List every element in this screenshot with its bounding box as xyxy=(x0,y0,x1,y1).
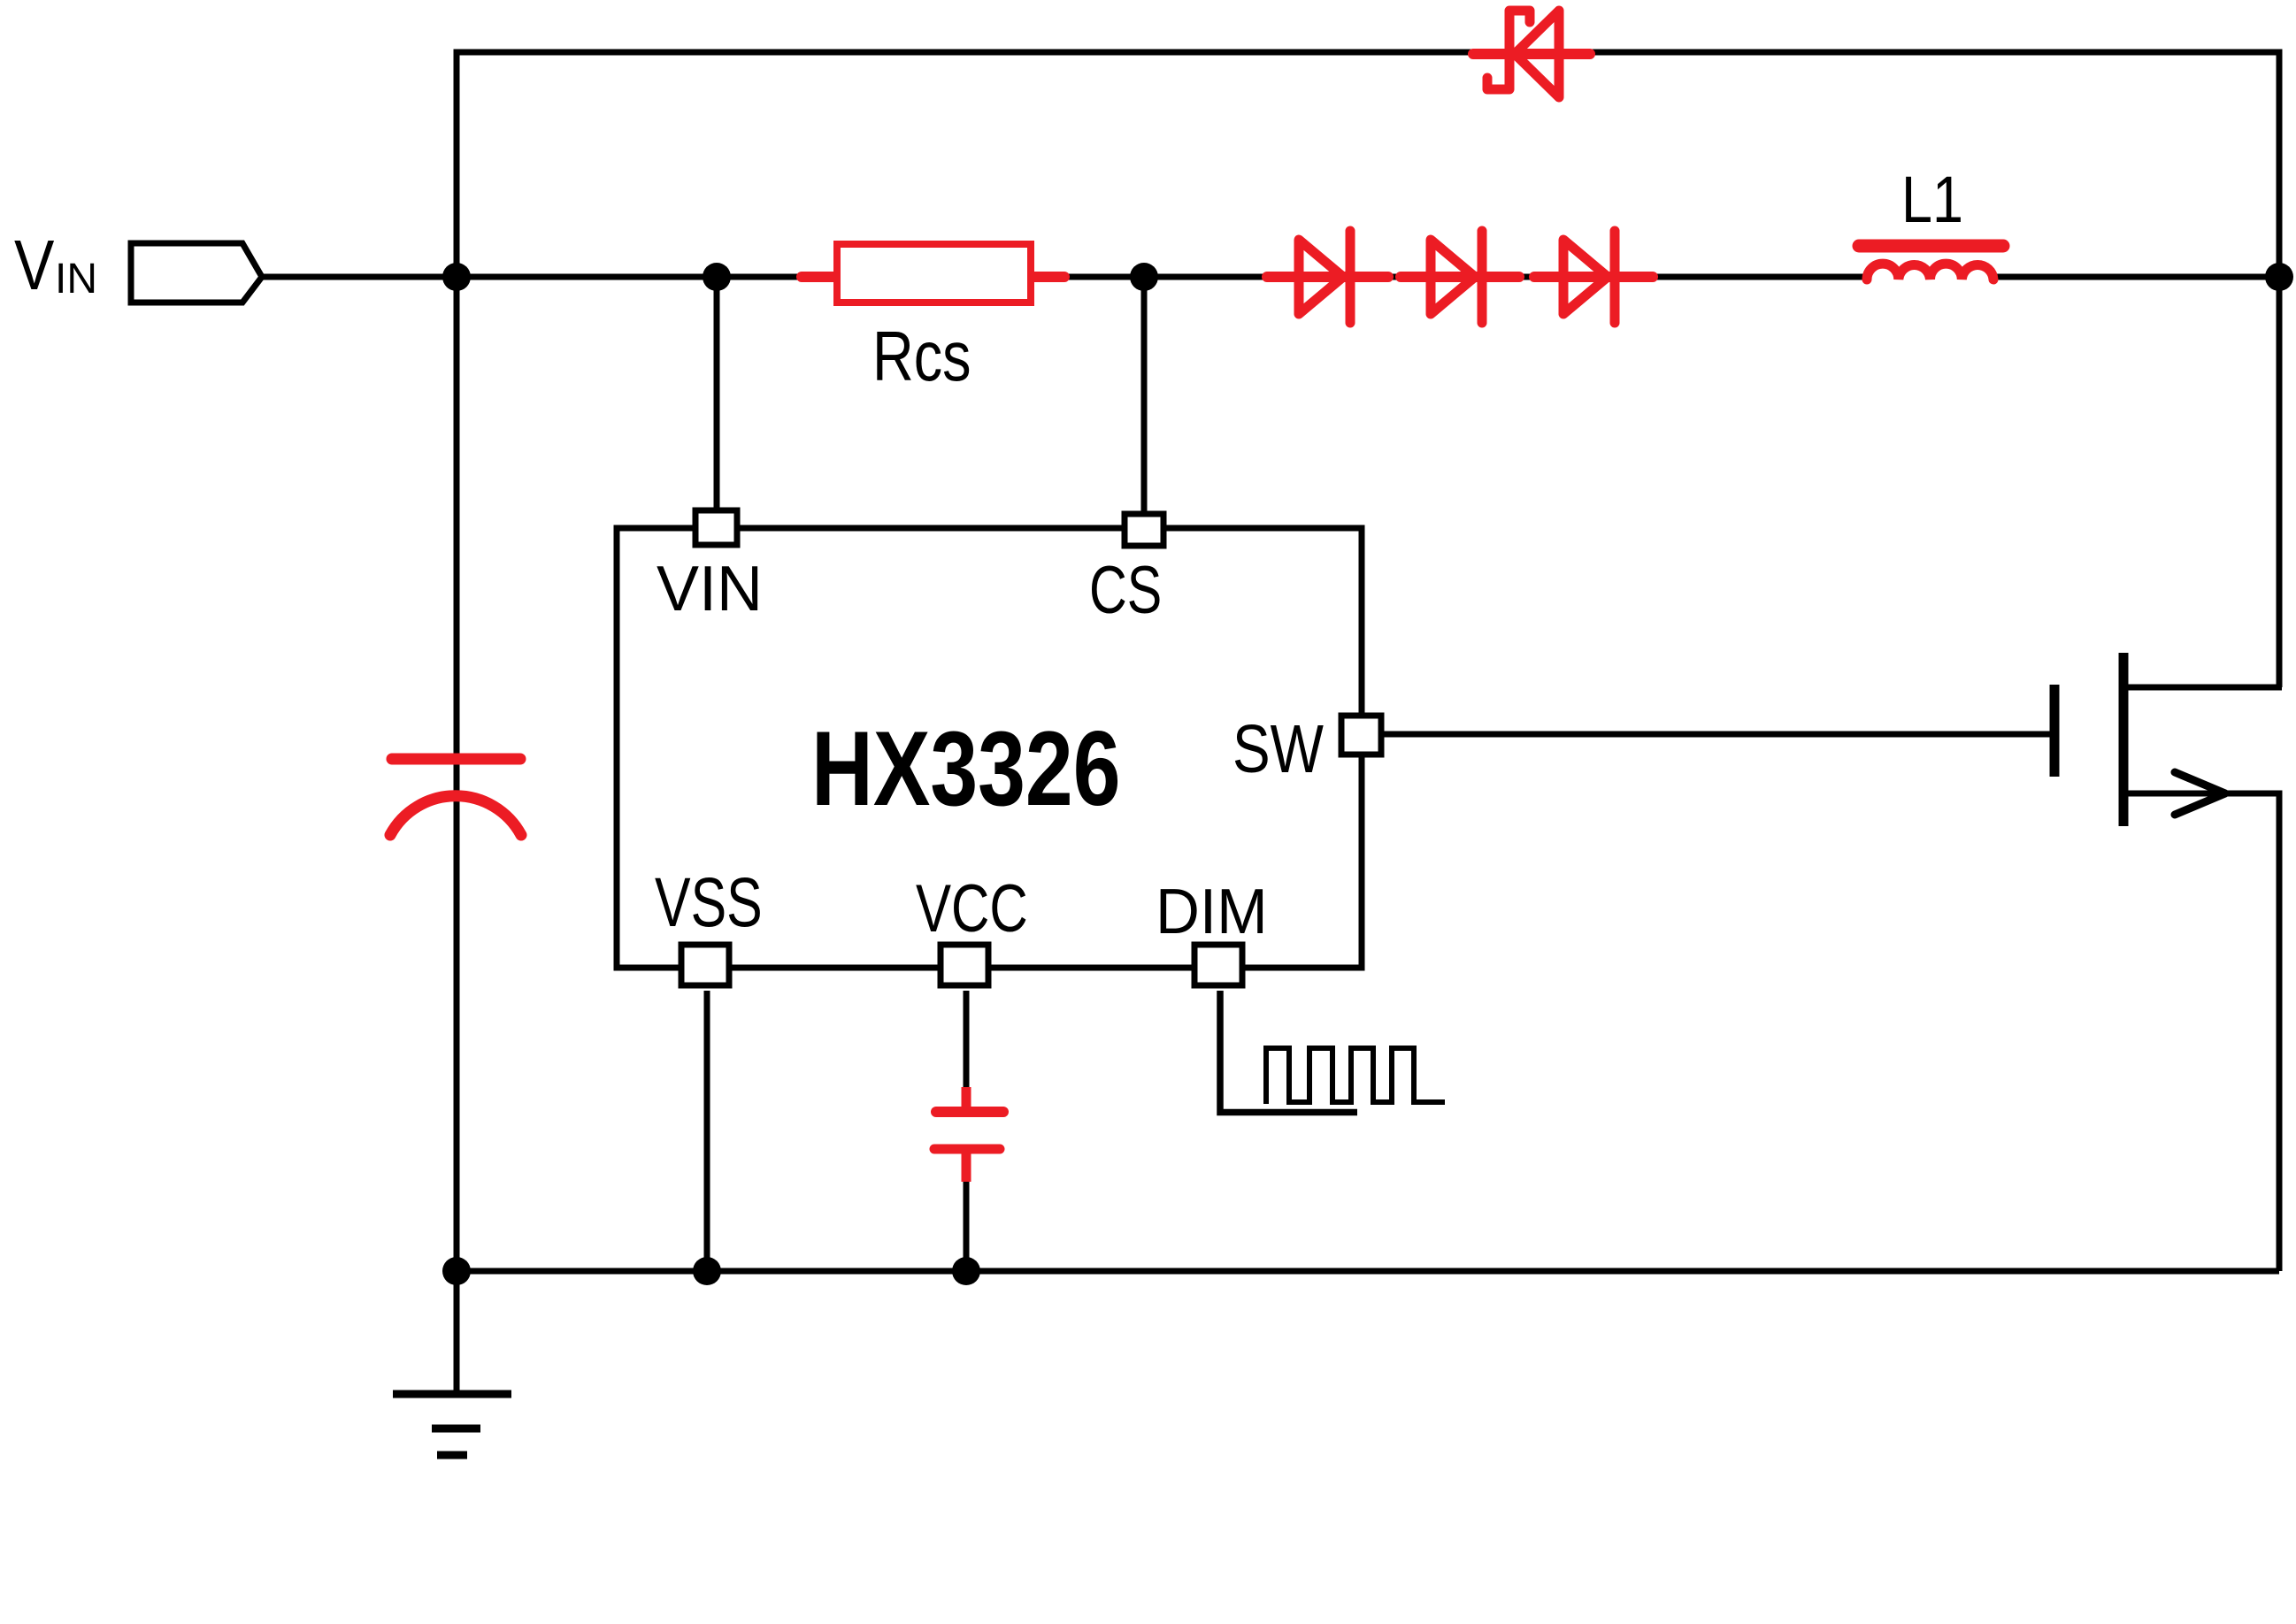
wire VSS drop xyxy=(704,991,710,1271)
wire top rail xyxy=(457,52,2279,1271)
pin CS square xyxy=(1125,514,1163,546)
wire VCC drop lower xyxy=(964,1178,970,1271)
pin VCC square xyxy=(941,945,988,985)
pin DIM square xyxy=(1194,945,1242,985)
resistor Rcs (red) xyxy=(802,244,1064,303)
wire drain tap xyxy=(2123,685,2282,691)
zener diode (red) on top rail xyxy=(1473,11,1590,97)
svg-text:VSS: VSS xyxy=(655,862,763,941)
svg-text:Rcs: Rcs xyxy=(872,318,971,396)
wire main VIN rail xyxy=(260,274,2279,280)
svg-text:SW: SW xyxy=(1232,710,1324,786)
label SW (pin) xyxy=(1232,710,1324,786)
label DIM (pin) xyxy=(1156,876,1268,947)
wire source tap and right lower rail xyxy=(2123,793,2279,1271)
LED D3 (red) xyxy=(1534,231,1653,323)
svg-text:L1: L1 xyxy=(1901,163,1963,236)
junction node CS pin xyxy=(1130,263,1158,291)
label L1 xyxy=(1901,163,1963,236)
wire VCC drop upper xyxy=(964,991,970,1092)
IC U1 HX3326 body xyxy=(617,528,1362,968)
label CS (pin) xyxy=(1089,553,1162,628)
PWM waveform at DIM xyxy=(1266,1048,1445,1104)
label VCC (pin) xyxy=(916,870,1028,946)
svg-text:V: V xyxy=(14,226,55,304)
wire bottom ground rail xyxy=(457,1268,2279,1275)
wire CS pin drop xyxy=(1141,277,1148,515)
wire VIN pin drop xyxy=(714,277,720,510)
junction node VIN rail / input cap xyxy=(442,263,471,291)
svg-text:VCC: VCC xyxy=(916,870,1028,946)
label VIN net xyxy=(14,226,55,304)
label VIN (pin) xyxy=(657,554,763,624)
MOSFET Q1 gate bar xyxy=(2050,685,2060,777)
wire SW to gate xyxy=(1380,732,2054,738)
label Rcs xyxy=(872,318,971,396)
svg-text:DIM: DIM xyxy=(1156,876,1268,947)
junction node VIN pin xyxy=(703,263,731,291)
svg-text:HX3326: HX3326 xyxy=(811,709,1120,828)
LED D1 (red) xyxy=(1267,231,1388,323)
label VSS (pin) xyxy=(655,862,763,941)
pin VIN square xyxy=(695,510,737,545)
VIN port connector xyxy=(131,243,262,303)
ground symbol xyxy=(393,1271,511,1455)
MOSFET Q1 channel bar xyxy=(2119,653,2129,826)
junction node VCC ground xyxy=(952,1257,980,1285)
inductor L1 (red) xyxy=(1859,246,2003,280)
capacitor C2 at VCC (red) xyxy=(934,1087,1003,1182)
label HX3326 xyxy=(811,709,1120,828)
junction node L1 output xyxy=(2265,263,2293,291)
capacitor C1 input (red) xyxy=(390,759,521,835)
pin SW square xyxy=(1341,716,1381,755)
svg-text:CS: CS xyxy=(1089,553,1162,628)
junction node ground left xyxy=(442,1257,471,1285)
svg-text:VIN: VIN xyxy=(657,554,763,624)
wire DIM drop and PWM baseline xyxy=(1220,991,1357,1113)
svg-text:IN: IN xyxy=(55,256,97,303)
LED D2 (red) xyxy=(1401,231,1519,323)
pin VSS square xyxy=(681,945,729,985)
MOSFET Q1 source arrow xyxy=(2175,772,2225,815)
junction node VSS ground xyxy=(693,1257,721,1285)
